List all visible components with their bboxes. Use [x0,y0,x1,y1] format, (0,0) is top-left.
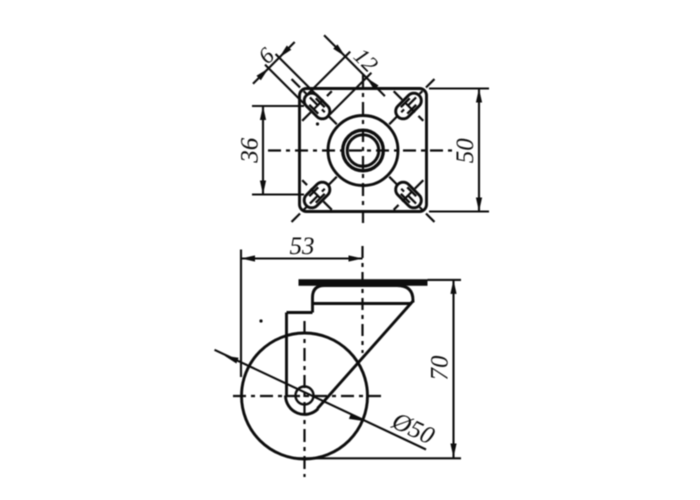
wheel horizontal centreline [233,395,381,397]
dim 70: extension line bottom [296,457,461,459]
slot TR radial centreline [389,77,436,124]
fork bottom arc around hub [286,396,319,415]
horizontal centreline [268,149,454,151]
slot BR radial centreline [389,177,436,224]
mounting slot TR (12x6) [393,90,425,122]
dim 70: extension line top [428,279,462,281]
mounting slot BR (12x6) [393,179,425,211]
slot BL cross centreline [302,180,332,210]
fork step vertical [311,304,314,313]
swivel housing outer circle [328,116,398,186]
dim 50: dimension line [478,89,480,212]
dim 36: extension lines [252,105,304,107]
centre bore ring outer [343,130,384,171]
fork step horizontal [287,311,313,314]
fork diagonal edge [318,301,414,409]
dim 70: dimension line [452,280,454,458]
top plate bar [299,279,428,286]
slot BL radial centreline [290,177,337,224]
wheel vertical centreline [303,321,305,477]
svg-text:50: 50 [452,138,479,164]
mounting slot TL (12x6) [301,90,333,122]
slot TR cross centreline [394,91,424,121]
axle circle [296,387,314,405]
dim 6: dimension line and arrows [269,58,280,69]
centre bore ring inner [347,135,379,167]
svg-text:70: 70 [427,355,454,381]
dim 6: extension lines [276,54,317,95]
dim 12: extension lines [309,52,351,94]
svg-text:53: 53 [290,233,315,260]
wheel [242,333,368,459]
stray dot [259,319,262,322]
dim 12: dimension line and arrows [345,57,366,78]
dim 36: dimension line [262,106,264,195]
top plate outline [300,89,427,212]
slot BR cross centreline [394,180,424,210]
slot TL cross centreline [302,91,332,121]
stray dot [316,122,319,125]
vertical centreline [362,75,364,225]
dim 50: extension lines [429,87,489,89]
dome bottom line [313,302,412,305]
slot TL radial centreline [290,77,337,124]
mounting slot BL (12x6) [301,179,333,211]
svg-text:36: 36 [237,137,264,164]
swivel dome [313,286,414,304]
fork left edge [285,313,288,396]
swivel axis centreline [361,246,363,353]
dia 50 leader line [215,350,427,450]
dim 53: dimension line [241,257,363,259]
dim 53: extension line left [240,250,242,378]
